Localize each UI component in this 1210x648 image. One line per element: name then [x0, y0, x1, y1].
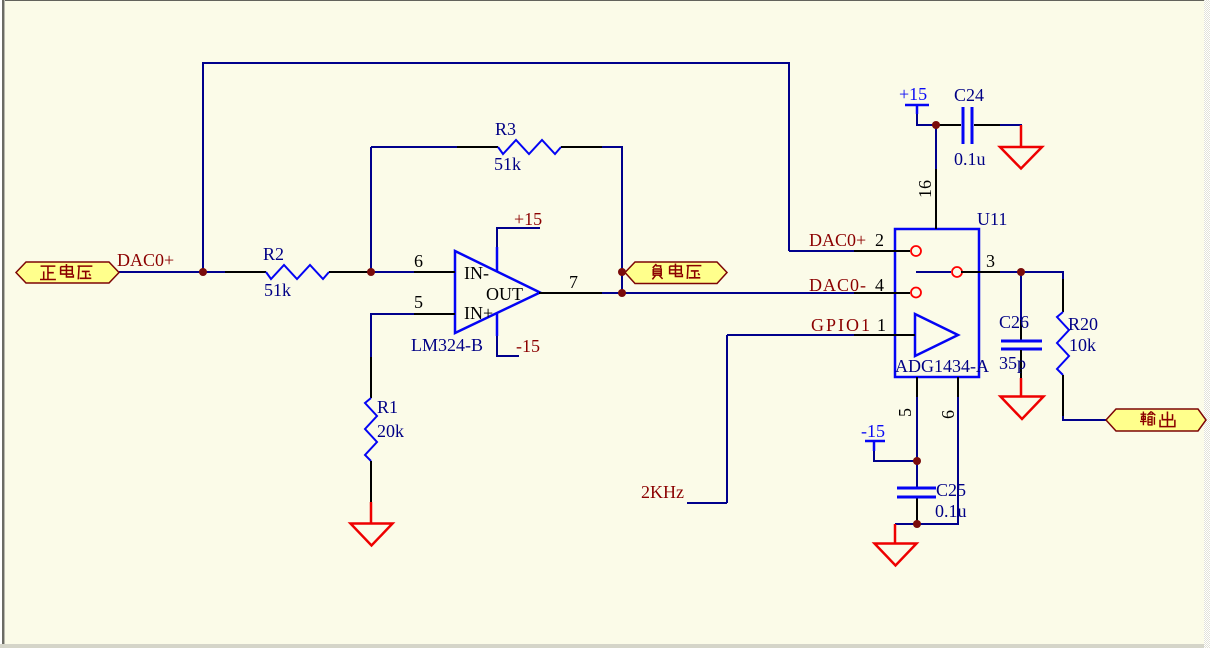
svg-text:GPIO1: GPIO1 — [811, 315, 872, 335]
junction -15 node — [913, 457, 921, 465]
wire pin 6 vertical — [957, 396, 959, 524]
wire horizontal into chip pin 2 — [789, 250, 855, 252]
chip pin 2 lead — [854, 250, 910, 252]
svg-text:0.1u: 0.1u — [954, 149, 986, 169]
svg-text:C24: C24 — [954, 85, 984, 105]
resistor R3 — [457, 119, 602, 174]
port 正电压 — [16, 262, 119, 283]
svg-text:0.1u: 0.1u — [935, 501, 967, 521]
svg-text:R1: R1 — [377, 397, 398, 417]
svg-text:IN-: IN- — [464, 263, 489, 283]
power port +15 top — [899, 84, 929, 114]
svg-text:51k: 51k — [264, 280, 291, 300]
wire feedback vertical left — [370, 147, 372, 272]
wire 2KHz vertical up — [726, 335, 728, 503]
chip pin 3 lead — [961, 271, 1000, 273]
junction node 负电压 — [618, 268, 626, 276]
wire op-amp +15 bar — [497, 228, 540, 247]
junction node B — [367, 268, 375, 276]
op-amp pin 7 output lead — [539, 292, 602, 294]
wire 2KHz horizontal — [687, 502, 727, 504]
wire node down toward pin 16 — [935, 125, 937, 170]
svg-text:R3: R3 — [495, 119, 516, 139]
wire corner into R20 — [1062, 271, 1064, 280]
chip pin 1 lead — [854, 334, 896, 336]
op-amp U1 LM324-B — [411, 247, 540, 355]
wire op-amp -15 elbow — [497, 335, 519, 356]
wire right vertical down to chip pin 2 row — [788, 62, 790, 251]
wire from port 正电压 to node A — [119, 271, 226, 273]
wire -15 to node at pin 5 — [874, 450, 918, 461]
svg-text:2KHz: 2KHz — [641, 482, 684, 502]
wire output to chip pin 4 — [601, 292, 855, 294]
wire vertical R3 down to output node — [621, 146, 623, 293]
svg-text:OUT: OUT — [486, 284, 523, 304]
svg-text:DAC0+: DAC0+ — [117, 250, 174, 270]
chip pin 16 lead — [935, 169, 937, 229]
resistor R20 — [1057, 279, 1098, 416]
svg-text:-15: -15 — [861, 421, 885, 441]
junction node A — [199, 268, 207, 276]
svg-text:U11: U11 — [977, 209, 1007, 229]
svg-text:+15: +15 — [514, 209, 542, 229]
wire op-amp IN+ horizontal — [371, 313, 415, 315]
wire left vertical from top to DAC0+ node — [202, 62, 204, 272]
svg-text:3: 3 — [986, 251, 995, 271]
wire top feedback horizontal — [202, 62, 790, 64]
wire C24 right to ground corner — [999, 124, 1022, 126]
svg-text:7: 7 — [569, 272, 578, 292]
op-amp pin 6 lead — [414, 271, 455, 273]
ground under R1 — [351, 502, 393, 546]
wire ground row under C25 — [895, 523, 959, 525]
wire vertical to R1 — [370, 313, 372, 358]
svg-text:DAC0-: DAC0- — [809, 275, 867, 295]
wire feedback top to R3 — [371, 146, 458, 148]
junction output node — [618, 289, 626, 297]
junction pin3 node — [1017, 268, 1025, 276]
svg-text:5: 5 — [895, 408, 915, 417]
wire R3 to right corner — [601, 146, 622, 148]
wire node down to C26 — [1020, 272, 1022, 321]
analog switch U11 ADG1434-A — [895, 209, 1007, 377]
junction ground node — [913, 520, 921, 528]
svg-text:C25: C25 — [936, 480, 966, 500]
resistor R2 — [225, 244, 370, 300]
svg-text:+15: +15 — [899, 84, 927, 104]
svg-text:IN+: IN+ — [464, 303, 493, 323]
wire node A to R2 — [203, 271, 226, 273]
svg-text:C26: C26 — [999, 312, 1029, 332]
wire R2 to op-amp IN- — [370, 271, 415, 273]
wire pin 5 vertical to C25 — [916, 396, 918, 487]
ground under C25 — [875, 524, 917, 566]
wire C25 bottom to ground node — [916, 497, 918, 524]
svg-text:ADG1434-A: ADG1434-A — [895, 356, 989, 376]
resistor R1 — [365, 357, 404, 503]
capacitor C25 — [897, 480, 967, 521]
chip pin 6 lead — [957, 377, 959, 397]
op-amp pin 5 lead — [414, 313, 455, 315]
wire GPIO1 into chip pin 1 — [727, 334, 855, 336]
ground under C24 — [1000, 125, 1042, 169]
wire stub to port 负电压 — [621, 271, 626, 273]
svg-text:10k: 10k — [1069, 335, 1096, 355]
svg-text:6: 6 — [938, 410, 958, 419]
svg-text:-15: -15 — [516, 336, 540, 356]
svg-text:35p: 35p — [999, 353, 1026, 373]
wire chip pin 3 to R20 corner — [999, 271, 1063, 273]
svg-text:20k: 20k — [377, 421, 404, 441]
chip pin 4 lead — [854, 292, 910, 294]
svg-text:5: 5 — [414, 292, 423, 312]
port 输出 — [1106, 409, 1206, 431]
capacitor C26 — [999, 312, 1042, 379]
port 负电压 — [625, 262, 727, 284]
svg-text:R20: R20 — [1068, 314, 1098, 334]
svg-text:4: 4 — [875, 275, 884, 295]
capacitor C24 — [938, 85, 1000, 169]
svg-text:6: 6 — [414, 251, 423, 271]
ground under C26 — [1001, 378, 1044, 419]
svg-text:16: 16 — [915, 180, 935, 198]
wire R20 bottom to port 输出 — [1063, 415, 1107, 420]
svg-text:DAC0+: DAC0+ — [809, 230, 866, 250]
wire +15 to node at C24 — [917, 112, 937, 125]
junction +15 node — [932, 121, 940, 129]
svg-text:LM324-B: LM324-B — [411, 335, 483, 355]
svg-text:51k: 51k — [494, 154, 521, 174]
svg-text:R2: R2 — [263, 244, 284, 264]
chip pin 5 lead — [916, 377, 918, 397]
svg-text:2: 2 — [875, 230, 884, 250]
power port -15 bottom — [861, 421, 885, 451]
svg-text:1: 1 — [877, 315, 886, 335]
